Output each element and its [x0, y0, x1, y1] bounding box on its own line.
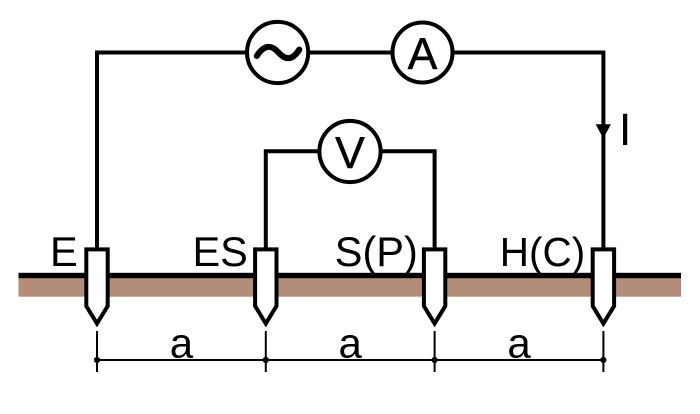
- dimension line: [97, 359, 603, 361]
- svg-text:V: V: [335, 129, 365, 178]
- wire: potential loop ES -> V -> S(P): [266, 151, 435, 252]
- svg-text:H(C): H(C): [500, 229, 585, 275]
- label H(C): [500, 229, 585, 275]
- soil band: [19, 278, 682, 296]
- wire: current loop E -> top -> H(C): [97, 53, 603, 253]
- dimension tick at H(C): [602, 331, 604, 372]
- label ES: [193, 228, 248, 275]
- dimension dot at ES: [263, 357, 269, 363]
- dimension dot at E: [94, 357, 100, 363]
- svg-text:E: E: [50, 228, 78, 275]
- label I: [619, 104, 632, 155]
- svg-text:ES: ES: [193, 228, 248, 275]
- svg-text:I: I: [619, 104, 632, 155]
- voltmeter V: [319, 121, 380, 182]
- svg-text:a: a: [170, 319, 194, 366]
- electrode H(C): [593, 249, 614, 323]
- label a (ES-S span): [339, 319, 363, 366]
- electrode E: [86, 249, 107, 323]
- electrode S(P): [424, 249, 445, 323]
- dimension tick at E: [96, 331, 98, 372]
- label a (E-ES span): [170, 319, 194, 366]
- label a (S-H span): [507, 319, 531, 366]
- ammeter A: [393, 23, 453, 83]
- label S(P): [335, 228, 418, 275]
- label E: [50, 228, 78, 275]
- current direction arrow: [596, 124, 611, 138]
- dimension dot at H(C): [600, 357, 606, 363]
- svg-text:A: A: [408, 30, 438, 79]
- ground surface line: [19, 273, 682, 279]
- svg-text:S(P): S(P): [335, 228, 418, 275]
- svg-text:a: a: [339, 319, 363, 366]
- dimension tick at ES: [265, 331, 267, 372]
- ac source U1: [247, 22, 308, 83]
- dimension dot at S(P): [432, 357, 438, 363]
- electrode ES: [255, 249, 276, 323]
- dimension tick at S(P): [434, 331, 436, 372]
- svg-text:a: a: [507, 319, 531, 366]
